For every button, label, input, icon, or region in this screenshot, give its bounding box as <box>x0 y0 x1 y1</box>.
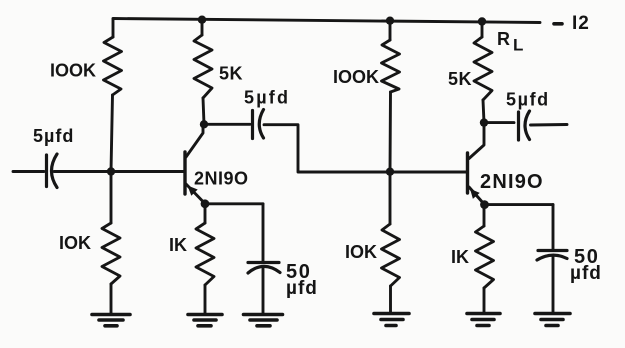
svg-text:5µfd: 5µfd <box>33 126 74 146</box>
svg-text:5µfd: 5µfd <box>506 90 550 110</box>
svg-text:5K: 5K <box>448 69 472 89</box>
svg-text:R: R <box>497 29 510 49</box>
svg-text:IK: IK <box>451 247 469 267</box>
svg-text:5K: 5K <box>219 64 243 84</box>
svg-text:I2: I2 <box>572 13 590 34</box>
svg-text:µfd: µfd <box>570 263 602 284</box>
svg-text:IK: IK <box>169 235 187 255</box>
svg-text:IOK: IOK <box>59 233 91 253</box>
svg-text:2NI9O: 2NI9O <box>194 169 249 189</box>
svg-text:µfd: µfd <box>286 278 318 299</box>
svg-text:IOOK: IOOK <box>50 61 96 81</box>
svg-text:5µfd: 5µfd <box>244 88 290 108</box>
svg-text:IOK: IOK <box>345 242 377 262</box>
svg-text:L: L <box>513 36 523 55</box>
svg-text:IOOK: IOOK <box>333 67 379 87</box>
svg-text:2NI9O: 2NI9O <box>480 171 544 193</box>
